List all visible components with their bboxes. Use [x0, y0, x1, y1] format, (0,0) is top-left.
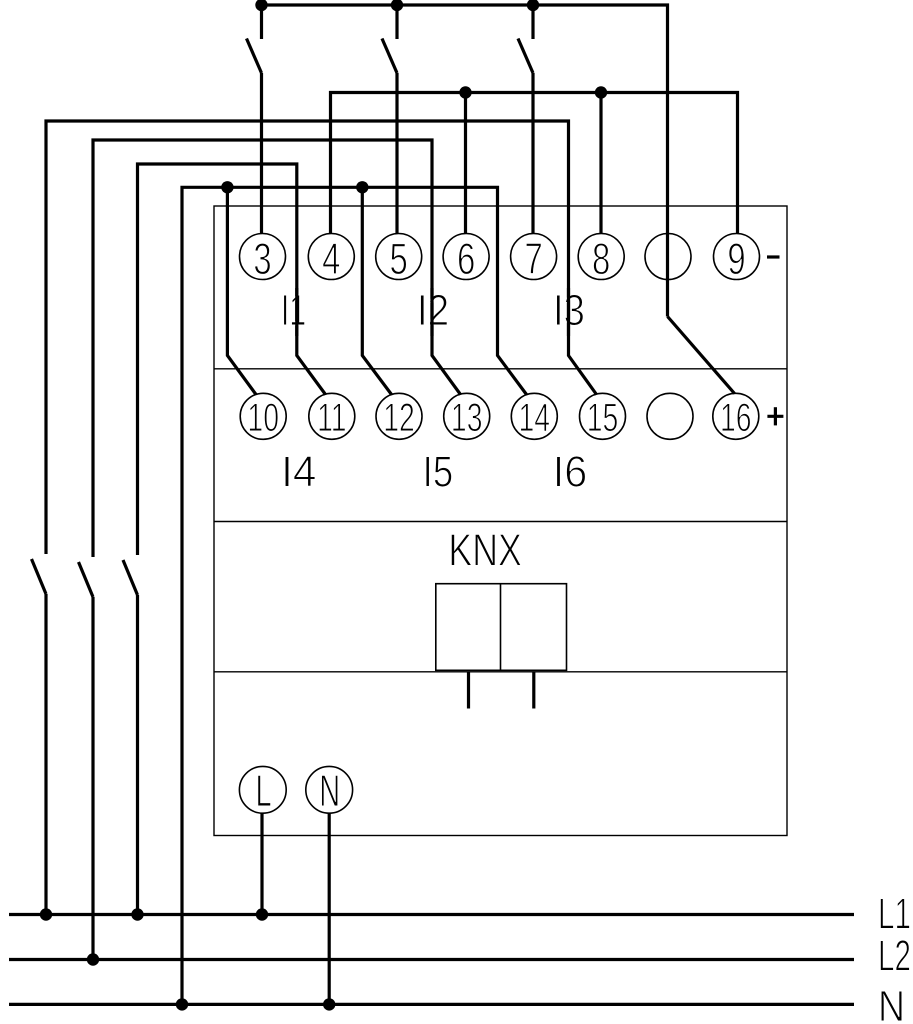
terminal circles row 1: [240, 234, 760, 280]
pin KNX +: [467, 672, 470, 709]
terminal blank bottom: [647, 393, 693, 439]
wire N to N bus: [328, 813, 331, 1004]
terminal 9: [714, 234, 760, 280]
wire D : N to terminals 10,12,14: [182, 187, 527, 1004]
svg-text:15: 15: [587, 396, 619, 440]
svg-text:L2: L2: [878, 931, 911, 980]
svg-text:13: 13: [451, 396, 483, 440]
terminal 11: [309, 393, 355, 439]
wire A : L1 to terminal 15: [32, 121, 597, 915]
terminal 3: [240, 234, 286, 280]
svg-text:N: N: [878, 981, 905, 1024]
KNX connector block: [436, 584, 567, 671]
svg-text:4: 4: [322, 235, 340, 284]
terminal 13: [444, 393, 490, 439]
terminal 15: [580, 393, 626, 439]
terminal 12: [376, 393, 422, 439]
svg-text:I1: I1: [281, 287, 306, 336]
wire bus 2 (terminals 4,6,8,9): [331, 93, 738, 234]
svg-text:12: 12: [383, 396, 415, 440]
node junction L-L1: [256, 908, 268, 920]
svg-text:7: 7: [524, 235, 542, 284]
svg-text:11: 11: [317, 396, 346, 440]
bus L2: [9, 958, 854, 961]
terminal 6: [443, 234, 489, 280]
labels: [253, 235, 745, 284]
node junction D-N: [176, 998, 188, 1010]
node junction N-N: [323, 998, 335, 1010]
terminal 10: [240, 393, 286, 439]
svg-text:16: 16: [720, 396, 752, 440]
terminal 8: [578, 234, 624, 280]
wire B : L2 to terminal 13: [79, 140, 461, 960]
wire top bus 1: [262, 5, 735, 394]
terminal 4: [308, 234, 354, 280]
node junction bus1-S2: [391, 0, 403, 11]
svg-text:I5: I5: [423, 446, 453, 496]
svg-text:5: 5: [390, 235, 408, 284]
svg-text:10: 10: [247, 396, 279, 440]
divider 2: [214, 521, 787, 523]
node junction bus2-6: [459, 86, 471, 98]
terminal blank top: [645, 234, 691, 280]
svg-text:I6: I6: [553, 447, 587, 496]
wire C : L1 to terminal 11: [123, 164, 326, 915]
node junction bus1-S3: [527, 0, 539, 11]
node junction bus1-S1: [255, 0, 267, 11]
terminal N: [306, 766, 353, 813]
svg-text:KNX: KNX: [448, 524, 521, 575]
terminal 16: [713, 393, 759, 439]
svg-text:I4: I4: [281, 448, 316, 497]
bus N: [9, 1003, 854, 1006]
switch S1: [247, 5, 262, 234]
node junction bus2-8: [595, 86, 607, 98]
node junction D-12: [356, 181, 368, 193]
wire A over label I3: [567, 288, 570, 336]
node junction A-L1: [40, 908, 52, 920]
terminal 9 minus sign: [767, 255, 780, 258]
node junction D-10: [221, 181, 233, 193]
bus L1: [9, 913, 854, 916]
wire diagonal to terminal 16: [668, 317, 735, 394]
terminal 16 plus sign: [767, 415, 783, 418]
pin KNX -: [532, 672, 535, 709]
terminal 7: [511, 234, 557, 280]
svg-text:14: 14: [519, 396, 551, 440]
device box: [214, 206, 787, 836]
terminal 5: [376, 234, 422, 280]
svg-text:N: N: [319, 766, 340, 816]
terminal L: [239, 766, 286, 813]
divider 1: [214, 368, 787, 370]
wire L to L1: [260, 813, 263, 914]
wire C over label I1: [295, 288, 298, 336]
divider 3: [214, 671, 787, 673]
terminal 14: [511, 393, 557, 439]
node junction B-L2: [87, 953, 99, 965]
wire B over label I2: [430, 288, 433, 336]
svg-text:6: 6: [457, 235, 475, 284]
svg-text:8: 8: [592, 235, 610, 284]
svg-text:L: L: [255, 766, 271, 816]
switch S3: [518, 5, 533, 234]
svg-text:9: 9: [727, 235, 745, 284]
svg-text:3: 3: [253, 235, 271, 284]
terminal circles row 2: [240, 393, 759, 439]
switch S2: [382, 5, 397, 234]
node junction C-L1: [131, 908, 143, 920]
